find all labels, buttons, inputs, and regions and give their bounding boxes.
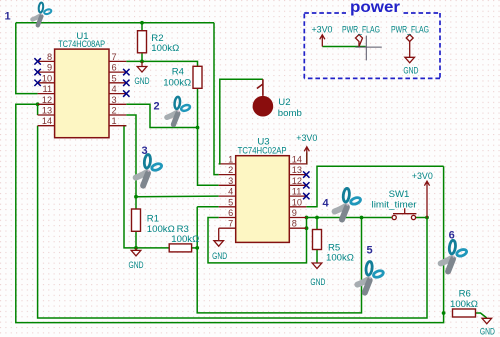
wire U3 pin9 to switch xyxy=(306,217,392,219)
svg-text:6: 6 xyxy=(449,230,455,242)
svg-text:GND: GND xyxy=(480,326,495,337)
GND symbol below R5 xyxy=(312,263,322,269)
wire R4 bottom to U3 pin3 xyxy=(198,88,219,185)
wire U1 pin2 down through scissors3 to R1 and U3 pin4 xyxy=(126,115,136,209)
svg-text:SW1: SW1 xyxy=(389,189,410,200)
U1 right pin 4 xyxy=(109,93,126,95)
U1 right pin 3 xyxy=(109,103,126,105)
U3 right pin 11 xyxy=(289,195,306,197)
svg-text:TC74HC08AP: TC74HC08AP xyxy=(58,39,105,50)
GND symbol right of R6 xyxy=(482,318,492,324)
U3 right pin 14 xyxy=(289,163,306,165)
scissors 5 xyxy=(357,261,384,292)
junction U1 pin12 xyxy=(36,102,40,106)
junction R2 bottom pin7 wire xyxy=(140,60,144,64)
switch SW1 limit_timer xyxy=(392,215,396,219)
U3 left pin 2 xyxy=(219,174,236,176)
wire U1 pin12-pin13 jumper xyxy=(37,104,39,115)
wire U3 pin8 stub xyxy=(305,227,307,229)
U3 left pin 6 xyxy=(219,217,236,219)
svg-text:1: 1 xyxy=(4,11,10,23)
svg-text:bomb: bomb xyxy=(278,108,302,119)
svg-text:TC74HC02AP: TC74HC02AP xyxy=(238,145,287,156)
PWR_FLAG 1 xyxy=(356,35,363,47)
svg-text:R4: R4 xyxy=(172,67,185,78)
wire U3 pin14 to +3V0 xyxy=(305,153,308,164)
bomb U2 body xyxy=(253,96,274,117)
svg-text:R6: R6 xyxy=(459,289,471,300)
+3V0 symbol at SW1 xyxy=(424,181,429,218)
svg-text:PWR_FLAG: PWR_FLAG xyxy=(391,25,429,36)
resistor R6 100k xyxy=(453,309,476,317)
resistor R3 100k xyxy=(169,244,191,252)
junction R1 bottom xyxy=(134,246,138,250)
svg-text:2: 2 xyxy=(112,106,117,116)
svg-text:100kΩ: 100kΩ xyxy=(171,234,199,245)
U1 left pin 12 xyxy=(38,103,55,105)
U3 right pin 9 xyxy=(289,217,306,219)
svg-text:+3V0: +3V0 xyxy=(412,171,433,182)
U3 right pin 12 xyxy=(289,184,306,186)
wire R5 leads xyxy=(316,218,318,230)
junction R2 top xyxy=(140,21,144,25)
power section dashed box xyxy=(304,12,346,14)
svg-text:10: 10 xyxy=(42,73,52,83)
wire R6 right to GND xyxy=(476,313,487,318)
svg-text:3: 3 xyxy=(112,95,117,105)
resistor R5 100k xyxy=(313,230,322,250)
wire U3 pin10 long top wire through scissors6 xyxy=(306,166,443,207)
op-amp U3 body TC74HC02AP xyxy=(236,156,290,243)
U1 left pin 11 xyxy=(38,93,55,95)
U1 right pin 1 xyxy=(109,125,126,127)
GND symbol at U3 pin7 xyxy=(218,228,220,241)
svg-text:R1: R1 xyxy=(147,214,159,225)
svg-text:10: 10 xyxy=(292,197,302,207)
scissors 1 xyxy=(32,2,52,25)
svg-text:1: 1 xyxy=(112,116,117,126)
svg-text:9: 9 xyxy=(47,63,52,73)
U1 no-connect X pins 6 5 4 xyxy=(123,69,129,75)
U1 left pin 13 xyxy=(38,114,55,116)
svg-text:6: 6 xyxy=(112,63,117,73)
svg-text:4: 4 xyxy=(322,198,329,210)
junction R6 left xyxy=(442,311,446,315)
GND symbol below R2 xyxy=(141,61,143,66)
svg-text:GND: GND xyxy=(135,76,150,87)
wire power box +3V0/PWR_FLAG xyxy=(322,46,365,48)
scissors 3 xyxy=(136,154,163,185)
svg-text:3: 3 xyxy=(141,145,147,157)
svg-text:13: 13 xyxy=(292,165,302,175)
svg-text:100kΩ: 100kΩ xyxy=(450,299,478,310)
wire R3 right to U3 pin5 and bottom wire to scissors5 xyxy=(192,247,198,249)
op-amp U1 body TC74HC08AP xyxy=(55,49,109,138)
svg-text:3: 3 xyxy=(228,176,233,186)
U3 right pin 13 xyxy=(289,174,306,176)
+3V0 power symbol xyxy=(320,35,325,47)
svg-text:4: 4 xyxy=(228,187,233,197)
svg-text:5: 5 xyxy=(112,73,117,83)
PWR_FLAG 2 xyxy=(406,35,413,42)
svg-text:12: 12 xyxy=(292,176,302,186)
U3 left pin 1 xyxy=(219,163,236,165)
U3 left pin 3 xyxy=(219,184,236,186)
bomb U2 fuse xyxy=(257,79,263,96)
svg-text:limit_timer: limit_timer xyxy=(372,200,418,211)
junction scissors3/R1/U3 pin4 xyxy=(134,195,138,199)
junction pin9/pin6 vertical xyxy=(305,216,309,220)
svg-text:7: 7 xyxy=(112,52,117,62)
junction scissors5 top xyxy=(360,216,364,220)
resistor R2 100k xyxy=(138,31,147,53)
resistor R4 100k xyxy=(193,66,202,88)
U3 no-connect X pins 13 12 11 xyxy=(303,171,309,177)
svg-text:100kΩ: 100kΩ xyxy=(326,252,354,263)
svg-text:GND: GND xyxy=(403,65,418,76)
U3 left pin 7 xyxy=(219,227,236,229)
svg-text:GND: GND xyxy=(129,260,144,271)
U3 left pin 4 xyxy=(219,195,236,197)
svg-text:7: 7 xyxy=(228,219,233,229)
svg-text:+3V0: +3V0 xyxy=(296,133,317,144)
svg-text:13: 13 xyxy=(42,106,52,116)
wire switch right to +3V0 vertical xyxy=(415,217,427,219)
wire U1 pin12 to far-left vertical and bottom rail xyxy=(16,104,444,322)
svg-text:2: 2 xyxy=(228,165,233,175)
U1 left pin 8 xyxy=(38,60,55,62)
svg-text:GND: GND xyxy=(212,251,227,262)
svg-text:14: 14 xyxy=(42,116,52,126)
U1 right pin 5 xyxy=(109,82,126,84)
svg-text:11: 11 xyxy=(43,84,53,94)
junction switch right xyxy=(425,216,429,220)
resistor R1 100k xyxy=(132,209,141,231)
svg-text:GND: GND xyxy=(310,277,325,288)
wire R1 bottom to R3 left xyxy=(136,231,169,248)
svg-text:8: 8 xyxy=(47,52,52,62)
U1 no-connect X pins 8 9 10 xyxy=(34,58,40,64)
wire U1 pin14 to +3V0 bottom rail xyxy=(38,126,427,318)
svg-text:U2: U2 xyxy=(278,97,290,108)
scissors 6 xyxy=(441,240,468,271)
svg-text:5: 5 xyxy=(366,245,372,257)
svg-text:2: 2 xyxy=(153,101,159,113)
wire U1 pin1 down to R1 bottom junction xyxy=(124,126,136,248)
junction R3 right xyxy=(195,246,199,250)
wire R2 top leads xyxy=(141,23,143,31)
GND symbol below R1 xyxy=(135,248,137,251)
U3 right pin 8 xyxy=(289,227,306,229)
wire left vertical to U1 pin11 xyxy=(16,23,38,94)
wire U3 pin6 loop to pin8/pin9 xyxy=(208,218,307,263)
svg-text:power: power xyxy=(350,0,400,16)
U3 right pin 10 xyxy=(289,206,306,208)
U1 right pin 6 xyxy=(109,71,126,73)
wire top net from scissors1 to U3 pin2 xyxy=(16,22,214,24)
cursor crosshair xyxy=(355,36,381,61)
svg-text:8: 8 xyxy=(292,219,297,229)
scissors 2 xyxy=(167,97,191,125)
svg-text:PWR_FLAG: PWR_FLAG xyxy=(342,25,380,36)
U1 right pin 7 xyxy=(109,60,126,62)
U1 left pin 9 xyxy=(38,71,55,73)
svg-text:100kΩ: 100kΩ xyxy=(151,43,179,54)
svg-text:11: 11 xyxy=(292,187,302,197)
U1 right pin 2 xyxy=(109,114,126,116)
junction R5 top xyxy=(315,216,319,220)
wire U1 pin7 to R4 top xyxy=(126,61,197,66)
U1 left pin 10 xyxy=(38,82,55,84)
scissors 4 xyxy=(335,188,362,219)
svg-text:4: 4 xyxy=(112,84,117,94)
svg-text:1: 1 xyxy=(228,154,233,164)
svg-text:12: 12 xyxy=(42,95,52,105)
wire U3 pin1 up to bomb xyxy=(219,79,263,164)
U3 left pin 5 xyxy=(219,206,236,208)
U1 left pin 14 xyxy=(38,125,55,127)
svg-text:14: 14 xyxy=(292,154,302,164)
wire U1 pin3 to R4 bottom xyxy=(126,104,197,127)
+3V0 symbol at U3 pin14 xyxy=(304,147,309,165)
svg-text:+3V0: +3V0 xyxy=(312,25,333,36)
svg-text:6: 6 xyxy=(228,208,233,218)
svg-text:9: 9 xyxy=(292,208,297,218)
junction pin8 xyxy=(305,226,309,230)
junction R4 bottom xyxy=(196,126,200,130)
svg-text:100kΩ: 100kΩ xyxy=(163,77,191,88)
svg-text:5: 5 xyxy=(228,197,233,207)
